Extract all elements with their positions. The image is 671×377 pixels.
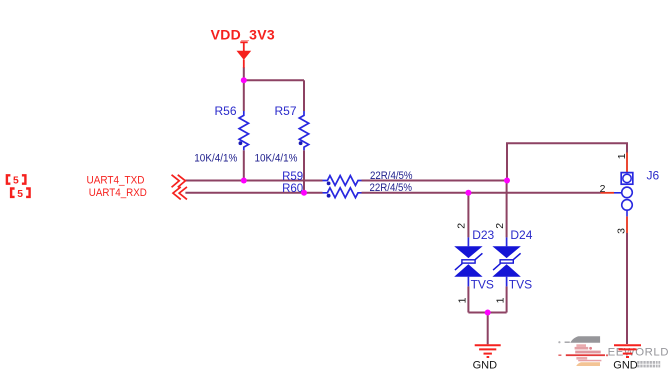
svg-text:22R/4/5%: 22R/4/5% (370, 170, 413, 182)
svg-text:VDD_3V3: VDD_3V3 (211, 26, 275, 42)
svg-text:J6: J6 (647, 168, 660, 182)
svg-text:UART4_TXD: UART4_TXD (87, 174, 145, 186)
svg-text:22R/4/5%: 22R/4/5% (370, 182, 413, 194)
svg-text:R60: R60 (282, 183, 303, 195)
svg-text:GND: GND (613, 360, 638, 372)
svg-text:R57: R57 (274, 104, 296, 118)
svg-text:TVS: TVS (471, 278, 494, 292)
svg-text:UART4_RXD: UART4_RXD (89, 187, 147, 199)
svg-text:R56: R56 (214, 104, 236, 118)
svg-text:1: 1 (616, 153, 628, 159)
svg-text:10K/4/1%: 10K/4/1% (194, 153, 237, 165)
svg-text:D23: D23 (472, 228, 494, 242)
svg-text:2: 2 (456, 223, 468, 229)
svg-text:5: 5 (13, 176, 19, 187)
svg-text:D24: D24 (510, 228, 532, 242)
svg-text:2: 2 (600, 183, 606, 195)
svg-text:EEWORLD: EEWORLD (608, 347, 669, 359)
svg-text:10K/4/1%: 10K/4/1% (255, 153, 298, 165)
svg-text:GND: GND (473, 360, 498, 372)
svg-text:1: 1 (456, 297, 468, 303)
svg-text:5: 5 (17, 189, 23, 200)
svg-text:TVS: TVS (509, 278, 532, 292)
svg-text:1: 1 (495, 297, 507, 303)
svg-text:2: 2 (494, 223, 506, 229)
svg-text:3: 3 (615, 228, 627, 234)
svg-text:R59: R59 (282, 171, 303, 183)
